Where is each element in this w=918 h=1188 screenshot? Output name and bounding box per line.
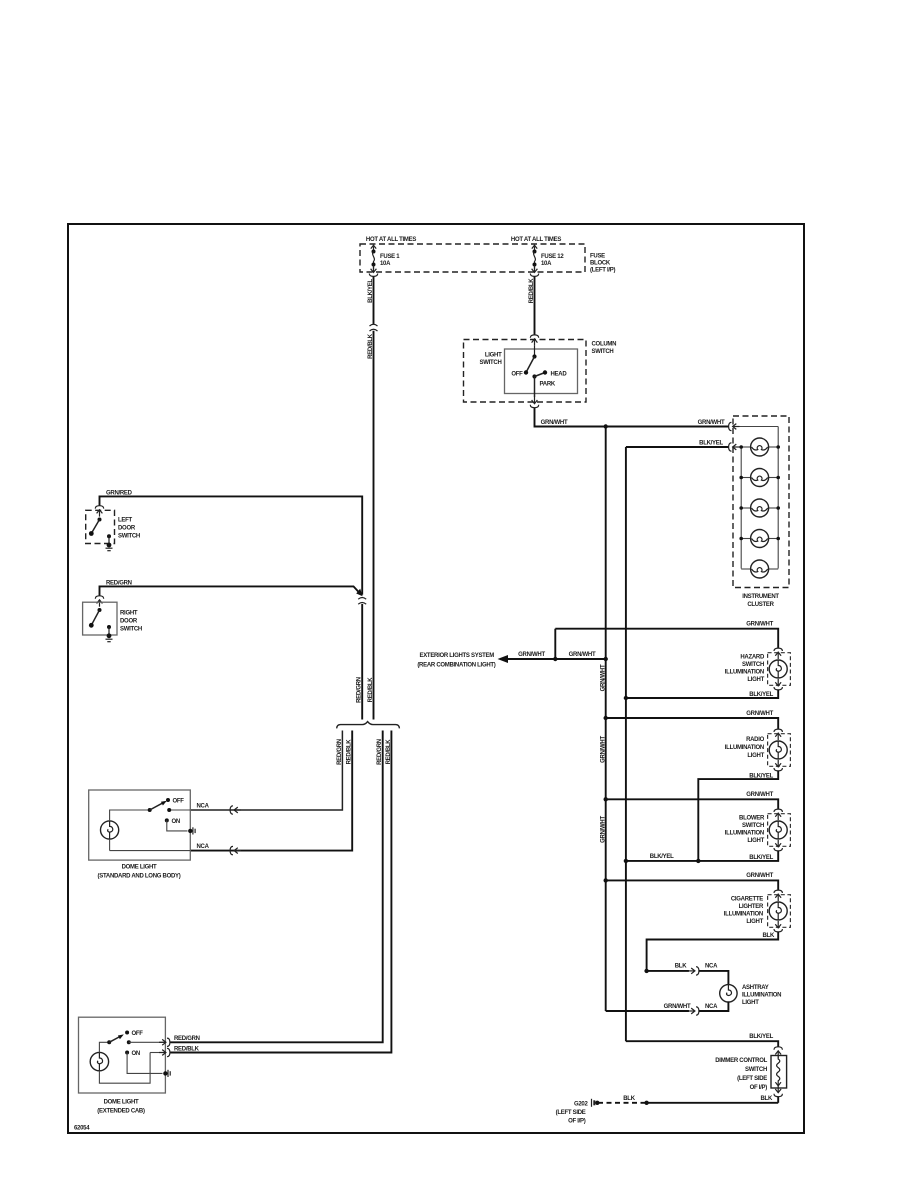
svg-text:NCA: NCA <box>197 844 210 850</box>
svg-text:COLUMN: COLUMN <box>592 342 617 348</box>
svg-text:ON: ON <box>132 1051 140 1057</box>
svg-text:CIGARETTE: CIGARETTE <box>731 897 763 903</box>
svg-text:BLK: BLK <box>623 1096 635 1102</box>
svg-text:HEAD: HEAD <box>551 372 568 378</box>
svg-text:ILLUMINATION: ILLUMINATION <box>725 670 764 676</box>
svg-text:SWITCH: SWITCH <box>592 349 614 355</box>
svg-text:10A: 10A <box>380 261 391 267</box>
svg-text:OF I/P): OF I/P) <box>750 1085 768 1091</box>
svg-text:RED/BLK: RED/BLK <box>386 739 392 765</box>
svg-text:ILLUMINATION: ILLUMINATION <box>724 912 763 918</box>
svg-text:RED/GRN: RED/GRN <box>174 1036 200 1042</box>
svg-text:GRN/WHT: GRN/WHT <box>746 792 773 798</box>
svg-text:ILLUMINATION: ILLUMINATION <box>725 831 764 837</box>
svg-text:GRN/WHT: GRN/WHT <box>600 816 606 843</box>
svg-text:EXTERIOR LIGHTS SYSTEM: EXTERIOR LIGHTS SYSTEM <box>419 653 494 659</box>
svg-text:LEFT: LEFT <box>118 518 132 524</box>
svg-text:SWITCH: SWITCH <box>480 360 502 366</box>
svg-text:BLK/YEL: BLK/YEL <box>749 773 773 779</box>
svg-text:SWITCH: SWITCH <box>742 823 764 829</box>
svg-text:ON: ON <box>172 819 180 825</box>
svg-text:LIGHT: LIGHT <box>747 838 764 844</box>
svg-text:GRN/WHT: GRN/WHT <box>518 652 545 658</box>
svg-text:BLK/YEL: BLK/YEL <box>368 279 374 303</box>
svg-text:SWITCH: SWITCH <box>118 534 140 540</box>
svg-text:NCA: NCA <box>705 1004 718 1010</box>
svg-text:OFF: OFF <box>173 799 185 805</box>
svg-text:FUSE 1: FUSE 1 <box>380 254 400 260</box>
svg-text:GRN/WHT: GRN/WHT <box>600 736 606 763</box>
svg-text:10A: 10A <box>541 261 552 267</box>
svg-text:RED/GRN: RED/GRN <box>377 739 383 765</box>
svg-text:DOME LIGHT: DOME LIGHT <box>104 1100 139 1106</box>
svg-text:ASHTRAY: ASHTRAY <box>742 985 769 991</box>
svg-text:GRN/WHT: GRN/WHT <box>600 664 606 691</box>
svg-text:RED/BLK: RED/BLK <box>368 677 374 703</box>
svg-text:DOOR: DOOR <box>118 526 136 532</box>
svg-text:BLK/YEL: BLK/YEL <box>699 441 723 447</box>
svg-text:G202: G202 <box>574 1102 589 1108</box>
svg-text:RIGHT: RIGHT <box>120 611 138 617</box>
svg-text:NCA: NCA <box>197 804 210 810</box>
svg-text:(LEFT SIDE: (LEFT SIDE <box>737 1076 767 1082</box>
svg-text:FUSE 12: FUSE 12 <box>541 254 564 260</box>
svg-text:HOT AT ALL TIMES: HOT AT ALL TIMES <box>511 237 561 243</box>
svg-text:FUSE: FUSE <box>590 254 605 260</box>
svg-text:RED/BLK: RED/BLK <box>368 333 374 359</box>
svg-text:LIGHT: LIGHT <box>485 353 502 359</box>
svg-text:SWITCH: SWITCH <box>742 662 764 668</box>
svg-text:GRN/WHT: GRN/WHT <box>664 1004 691 1010</box>
svg-text:GRN/WHT: GRN/WHT <box>746 622 773 628</box>
svg-text:HAZARD: HAZARD <box>740 655 765 661</box>
svg-text:DOOR: DOOR <box>120 619 138 625</box>
svg-text:DIMMER CONTROL: DIMMER CONTROL <box>715 1058 767 1064</box>
svg-text:(LEFT SIDE: (LEFT SIDE <box>556 1110 586 1116</box>
svg-text:BLK/YEL: BLK/YEL <box>749 855 773 861</box>
svg-text:PARK: PARK <box>540 382 556 388</box>
svg-text:BLK/YEL: BLK/YEL <box>749 1034 773 1040</box>
svg-text:(LEFT I/P): (LEFT I/P) <box>590 268 615 274</box>
svg-text:LIGHT: LIGHT <box>747 753 764 759</box>
svg-text:(EXTENDED CAB): (EXTENDED CAB) <box>97 1109 145 1115</box>
svg-text:RED/GRN: RED/GRN <box>337 739 343 765</box>
svg-text:GRN/WHT: GRN/WHT <box>746 711 773 717</box>
svg-text:DOME LIGHT: DOME LIGHT <box>122 865 157 871</box>
svg-text:HOT AT ALL TIMES: HOT AT ALL TIMES <box>366 237 416 243</box>
svg-text:BLK: BLK <box>763 933 775 939</box>
svg-text:BLK/YEL: BLK/YEL <box>650 854 674 860</box>
svg-text:LIGHT: LIGHT <box>747 677 764 683</box>
svg-text:BLOCK: BLOCK <box>590 261 611 267</box>
svg-text:GRN/WHT: GRN/WHT <box>569 652 596 658</box>
svg-text:(REAR COMBINATION LIGHT): (REAR COMBINATION LIGHT) <box>417 663 495 669</box>
svg-text:BLOWER: BLOWER <box>739 816 765 822</box>
svg-text:ILLUMINATION: ILLUMINATION <box>742 993 781 999</box>
svg-text:OFF: OFF <box>511 372 523 378</box>
svg-text:LIGHT: LIGHT <box>742 1000 759 1006</box>
svg-text:SWITCH: SWITCH <box>745 1067 767 1073</box>
svg-text:ILLUMINATION: ILLUMINATION <box>725 745 764 751</box>
svg-text:GRN/WHT: GRN/WHT <box>541 420 568 426</box>
svg-text:OF I/P): OF I/P) <box>568 1119 586 1125</box>
svg-text:62054: 62054 <box>74 1126 90 1132</box>
svg-text:RADIO: RADIO <box>746 737 765 743</box>
svg-text:RED/BLK: RED/BLK <box>529 278 535 304</box>
svg-text:GRN/WHT: GRN/WHT <box>698 420 725 426</box>
svg-text:BLK: BLK <box>761 1096 773 1102</box>
svg-text:RED/GRN: RED/GRN <box>357 677 363 703</box>
svg-text:RED/BLK: RED/BLK <box>347 739 353 765</box>
svg-text:(STANDARD AND LONG BODY): (STANDARD AND LONG BODY) <box>98 874 181 880</box>
svg-text:LIGHT: LIGHT <box>746 919 763 925</box>
svg-text:OFF: OFF <box>132 1031 144 1037</box>
svg-text:RED/BLK: RED/BLK <box>174 1046 200 1052</box>
svg-text:NCA: NCA <box>705 964 718 970</box>
svg-text:GRN/WHT: GRN/WHT <box>746 873 773 879</box>
svg-text:LIGHTER: LIGHTER <box>739 904 764 910</box>
svg-text:INSTRUMENT: INSTRUMENT <box>742 594 779 600</box>
svg-text:BLK: BLK <box>675 964 687 970</box>
svg-text:SWITCH: SWITCH <box>120 627 142 633</box>
svg-text:CLUSTER: CLUSTER <box>747 602 774 608</box>
svg-text:BLK/YEL: BLK/YEL <box>749 692 773 698</box>
